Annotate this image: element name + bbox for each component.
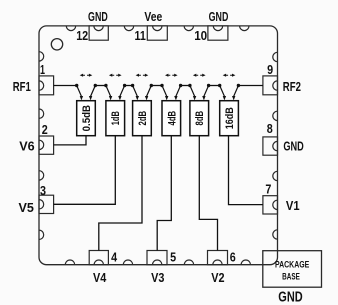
node B2 output junction — [123, 84, 126, 87]
svg-text:1dB: 1dB — [110, 111, 122, 125]
wire V1 pin7 to B6 control — [229, 136, 263, 205]
wire V6 pin2 to B1 control — [54, 136, 86, 145]
wire S1 to S2 — [95, 85, 106, 87]
svg-text:2: 2 — [42, 122, 48, 137]
svg-text:6: 6 — [230, 249, 236, 264]
svg-text:V4: V4 — [93, 270, 107, 285]
svg-text:V2: V2 — [211, 270, 224, 285]
pin 8 pad — [263, 137, 278, 155]
switch S3 right throw into 2dB — [145, 86, 151, 101]
svg-text:3: 3 — [40, 183, 46, 198]
svg-text:5: 5 — [170, 249, 176, 264]
wire V5 pin3 to B2 control — [54, 136, 116, 205]
node B6 output junction — [237, 84, 240, 87]
pin 9 pad — [263, 76, 278, 95]
castellation notches, top edge — [66, 26, 249, 31]
toggle arrow A3 over 2dB — [136, 74, 149, 77]
toggle arrow A2 over 1dB — [109, 74, 122, 77]
svg-text:16dB: 16dB — [224, 107, 236, 129]
node B3 output junction — [150, 84, 153, 87]
svg-text:V6: V6 — [19, 138, 34, 153]
toggle arrow A4 over 4dB — [165, 74, 178, 77]
package outline U1 (12-pad QFN body) — [39, 26, 278, 265]
svg-text:4: 4 — [111, 249, 118, 264]
pin 6 pad — [208, 251, 228, 265]
svg-text:PACKAGE: PACKAGE — [275, 259, 309, 270]
attenuator B1 0.5dB — [77, 101, 96, 136]
switch S4 right throw into 4dB — [174, 86, 180, 101]
svg-text:RF2: RF2 — [283, 79, 301, 94]
svg-text:8: 8 — [267, 121, 273, 136]
package base paddle box — [263, 251, 322, 288]
wire S3 to S4 — [151, 85, 162, 87]
node B1 output junction — [94, 84, 97, 87]
toggle arrow A6 over 16dB — [223, 74, 236, 77]
switch S1 left throw into 0.5dB — [77, 86, 83, 101]
svg-text:GND: GND — [278, 290, 302, 305]
svg-text:10: 10 — [194, 28, 207, 43]
svg-text:GND: GND — [209, 9, 229, 24]
pin 10 pad — [208, 26, 228, 40]
attenuator B4 4dB — [162, 101, 181, 136]
svg-text:GND: GND — [88, 9, 108, 24]
svg-text:4dB: 4dB — [166, 111, 178, 126]
pin 7 pad — [263, 196, 278, 214]
svg-text:V3: V3 — [151, 270, 164, 285]
switch S2 left throw into 1dB — [106, 86, 112, 101]
wire S2 to S3 — [125, 85, 133, 87]
node B5 input junction — [188, 84, 191, 87]
toggle arrow A1 over 0.5dB — [80, 74, 93, 77]
node B6 input junction — [218, 84, 221, 87]
svg-text:0.5dB: 0.5dB — [81, 105, 93, 131]
switch S6 left throw into 16dB — [220, 86, 226, 101]
svg-text:V5: V5 — [19, 200, 34, 215]
castellation notches, bottom edge — [65, 260, 250, 265]
svg-text:7: 7 — [265, 182, 271, 197]
wire S6 to RF2 — [238, 85, 263, 87]
castellation notches, left edge — [39, 52, 44, 240]
pin 3 pad — [39, 195, 54, 213]
wire RF1 to S1 — [54, 85, 77, 87]
pin 11 pad — [147, 26, 167, 40]
svg-text:1: 1 — [40, 62, 45, 77]
switch S2 right throw into 1dB — [118, 86, 124, 101]
switch S3 left throw into 2dB — [133, 86, 139, 101]
attenuator B2 1dB — [106, 101, 125, 136]
svg-text:Vee: Vee — [144, 9, 162, 24]
switch S5 right throw into 8dB — [202, 86, 208, 101]
node B3 input junction — [131, 84, 134, 87]
wire V4 pin4 to B3 control — [99, 136, 142, 251]
wire V2 pin6 to B5 control — [199, 136, 217, 251]
switch S6 right throw into 16dB — [232, 86, 238, 101]
svg-text:RF1: RF1 — [13, 79, 31, 94]
pin 12 pad — [89, 26, 108, 40]
toggle arrow A5 over 8dB — [193, 74, 206, 77]
pin 2 pad — [39, 136, 54, 154]
svg-text:11: 11 — [135, 28, 146, 43]
wire V3 pin5 to B4 control — [157, 136, 171, 251]
pin 1 indicator dot — [51, 39, 62, 50]
attenuator B5 8dB — [190, 101, 209, 136]
node B4 output junction — [179, 84, 182, 87]
node B1 input junction — [75, 84, 78, 87]
node B2 input junction — [104, 84, 107, 87]
svg-text:9: 9 — [267, 62, 273, 77]
svg-text:2dB: 2dB — [137, 111, 149, 126]
attenuator B6 16dB — [220, 101, 239, 136]
svg-text:V1: V1 — [286, 198, 300, 213]
attenuator B3 2dB — [133, 101, 152, 136]
svg-text:8dB: 8dB — [194, 111, 206, 126]
node B4 input junction — [160, 84, 163, 87]
svg-text:GND: GND — [283, 138, 303, 153]
wire S5 to S6 — [209, 85, 220, 87]
castellation notches, right edge — [273, 52, 278, 239]
pin 4 pad — [89, 251, 108, 265]
switch S5 left throw into 8dB — [190, 86, 196, 101]
switch S1 right throw into 0.5dB — [89, 86, 95, 101]
pin 1 pad — [39, 76, 54, 95]
pin 5 pad — [147, 251, 167, 265]
switch S4 left throw into 4dB — [162, 86, 168, 101]
wire S4 to S5 — [181, 85, 190, 87]
svg-text:12: 12 — [76, 28, 88, 43]
node B5 output junction — [207, 84, 210, 87]
svg-text:BASE: BASE — [282, 272, 300, 283]
